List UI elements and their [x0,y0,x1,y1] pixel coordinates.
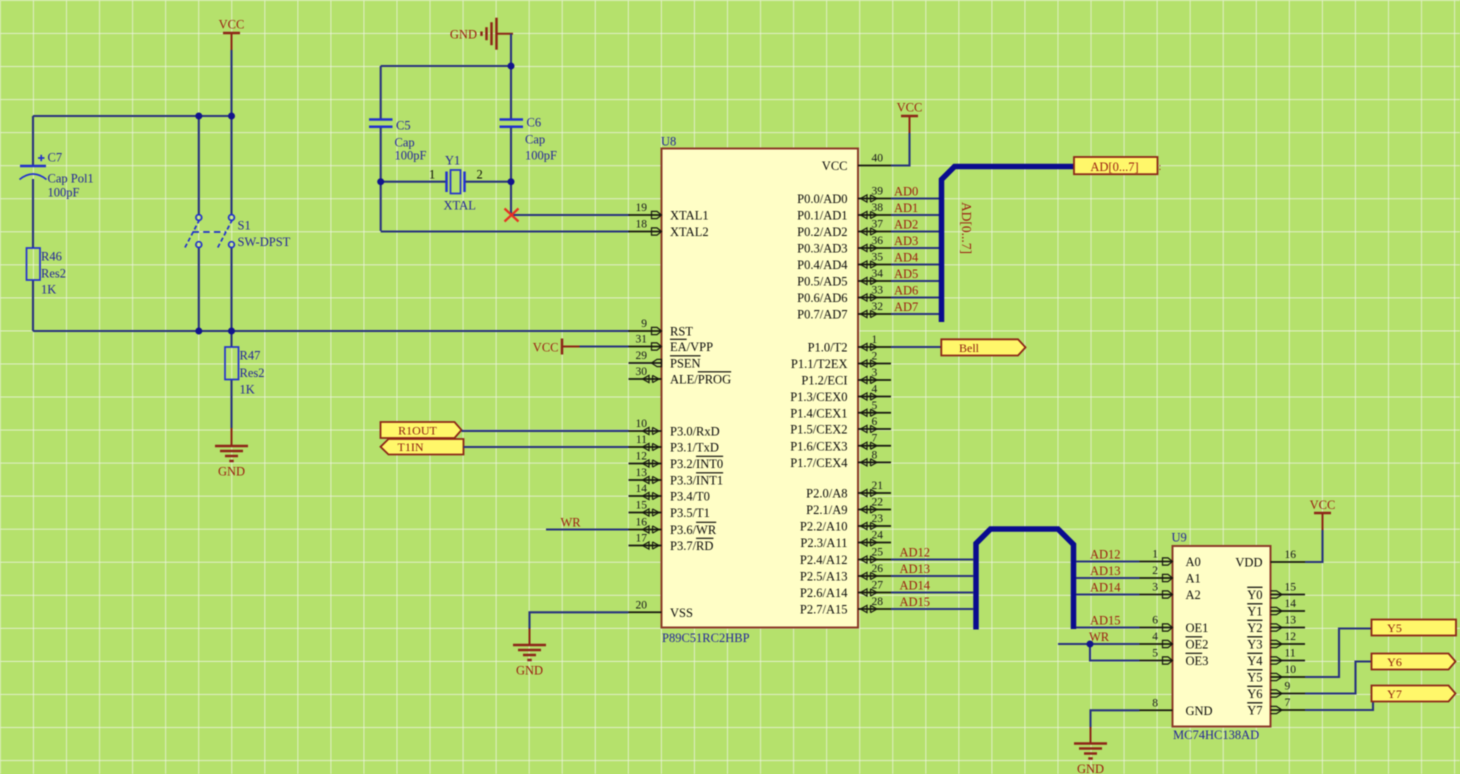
svg-text:Y6: Y6 [1247,687,1262,701]
svg-text:U9: U9 [1172,531,1187,545]
wire switch pole2 bottom lead [230,247,232,331]
svg-text:P3.2/INT0: P3.2/INT0 [670,457,723,471]
wire net AD13 (U8 side) [891,575,973,577]
node junction pole1-top [195,113,202,120]
U8 pin 4 P1.3/CEX0 [790,384,891,405]
node junction pole2-bottom [228,328,235,335]
wire net AD6 [891,296,939,298]
svg-text:AD3: AD3 [894,234,918,248]
U8 pin 33 P0.6/AD6 [797,285,891,306]
svg-text:P1.6/CEX3: P1.6/CEX3 [790,439,847,453]
svg-text:33: 33 [872,285,884,297]
U8 pin 27 P2.6/A14 [800,580,891,601]
wire R47 bottom lead [230,380,232,429]
wire Y6 net [1305,662,1372,694]
svg-text:P1.4/CEX1: P1.4/CEX1 [790,407,847,421]
svg-text:AD15: AD15 [900,595,931,609]
wire XTAL1 net [511,214,630,216]
wire C5 top lead [380,66,382,119]
wire net AD7 [891,313,939,315]
U8 pin 19 XTAL1 [629,202,709,223]
svg-text:P3.7/RD: P3.7/RD [670,539,713,553]
node junction GND-C6 top [508,63,515,70]
svg-text:P89C51RC2HBP: P89C51RC2HBP [662,631,750,645]
svg-text:24: 24 [872,530,884,542]
svg-text:Y7: Y7 [1387,687,1402,701]
svg-text:14: 14 [636,483,648,495]
svg-text:4: 4 [1152,631,1158,643]
U9 pin 1 A0 [1140,549,1201,570]
U8 pin 36 P0.3/AD3 [797,235,891,256]
svg-text:Y4: Y4 [1247,654,1263,668]
U9 pin 7 Y7 [1247,697,1305,718]
U9 pin 6 OE1 [1140,615,1209,636]
svg-text:AD7: AD7 [894,300,918,314]
wire net WR (U8 side) [546,528,629,530]
U8 pin 10 P3.0/RxD [629,418,720,439]
svg-text:P3.3/INT1: P3.3/INT1 [670,474,723,488]
U8 pin 13 P3.3/INT1 [629,467,724,488]
svg-text:17: 17 [636,533,648,545]
svg-text:RST: RST [670,325,693,339]
svg-text:P0.7/AD7: P0.7/AD7 [797,308,847,322]
wire net T1IN [464,446,629,448]
svg-text:16: 16 [1285,549,1297,561]
svg-text:Cap Pol1: Cap Pol1 [48,172,94,186]
wire C7 bottom lead [32,179,34,248]
port Y6 [1372,654,1456,670]
wire switch pole1 top lead [198,116,200,215]
wire net AD15 (U9 side) [1076,626,1140,628]
svg-text:WR: WR [1089,630,1110,644]
svg-text:9: 9 [641,318,647,330]
svg-text:26: 26 [872,563,884,575]
port Bell [941,339,1025,355]
bus label box AD[0...7] [1074,157,1158,174]
capacitor C7 [20,151,94,200]
svg-text:P1.1/T2EX: P1.1/T2EX [791,357,848,371]
svg-text:7: 7 [872,433,878,445]
wire C6 to XTAL1 corner [510,182,512,215]
IC U8 P89C51RC2HBP body [662,149,859,628]
wire net AD4 [891,263,939,265]
svg-text:8: 8 [1152,697,1158,709]
svg-text:1K: 1K [41,283,56,297]
U8 pin 38 P0.1/AD1 [797,202,891,223]
svg-text:Y5: Y5 [1247,671,1262,685]
bus AD12-AD15 hump [976,529,1074,630]
svg-text:AD13: AD13 [900,562,931,576]
svg-text:R47: R47 [240,349,261,363]
svg-text:C7: C7 [48,151,63,165]
node junction Y1 left [377,178,384,185]
U8 pin 21 P2.0/A8 [806,480,891,501]
wire net AD2 [891,230,939,232]
svg-text:6: 6 [1152,615,1158,627]
svg-text:19: 19 [636,202,648,214]
svg-text:100pF: 100pF [48,186,80,200]
svg-text:13: 13 [636,467,648,479]
svg-text:P1.5/CEX2: P1.5/CEX2 [790,423,847,437]
wire C5 bottom lead [380,127,382,231]
U9 pin 13 Y2 [1247,615,1305,636]
svg-text:30: 30 [636,366,648,378]
svg-text:AD14: AD14 [900,578,931,592]
svg-text:OE1: OE1 [1186,621,1209,635]
wire net AD5 [891,280,939,282]
svg-text:Y5: Y5 [1387,621,1402,635]
svg-text:12: 12 [636,451,648,463]
crystal Y1 [429,154,483,213]
svg-text:MC74HC138AD: MC74HC138AD [1173,728,1259,742]
svg-text:P3.5/T1: P3.5/T1 [670,506,710,520]
svg-text:P0.2/AD2: P0.2/AD2 [797,225,847,239]
svg-text:AD6: AD6 [894,283,918,297]
svg-text:P0.1/AD1: P0.1/AD1 [797,209,847,223]
wire C7 top lead [32,116,34,166]
wire net AD1 [891,214,939,216]
svg-text:2: 2 [872,351,878,363]
svg-text:XTAL1: XTAL1 [670,209,709,223]
U8 pin 35 P0.4/AD4 [797,252,891,273]
svg-text:1: 1 [429,168,435,182]
svg-text:AD0: AD0 [894,184,918,198]
svg-text:13: 13 [1285,615,1297,627]
svg-text:VSS: VSS [670,606,693,620]
svg-text:P0.4/AD4: P0.4/AD4 [797,258,848,272]
wire net EA/VPP [580,345,629,347]
svg-text:38: 38 [872,202,884,214]
power VCC VCC4 [1310,498,1336,530]
wire VSS to GND [530,612,629,628]
svg-text:AD12: AD12 [1090,547,1121,561]
svg-text:AD5: AD5 [894,267,918,281]
node junction Y1 right [508,178,515,185]
svg-text:AD4: AD4 [894,250,919,264]
U9 pin 11 Y4 [1247,648,1305,669]
capacitor C6 [500,116,558,163]
svg-text:T1IN: T1IN [398,440,424,454]
U8 pin 2 P1.1/T2EX [791,351,891,372]
power GND top (rotated) [450,18,513,50]
U8 pin 15 P3.5/T1 [629,500,710,521]
wire net AD14 (U9 side) [1076,593,1140,595]
U8 pin 39 P0.0/AD0 [797,186,891,207]
U8 pin 7 P1.6/CEX3 [790,433,891,454]
wire switch pole2 top lead [230,116,232,215]
svg-text:34: 34 [872,268,884,280]
svg-text:40: 40 [872,153,884,165]
svg-text:P3.0/RxD: P3.0/RxD [670,425,720,439]
svg-text:S1: S1 [238,219,251,233]
svg-text:P2.5/A13: P2.5/A13 [800,570,848,584]
U8 pin 28 P2.7/A15 [800,596,891,617]
svg-text:8: 8 [872,449,878,461]
U9 pin 8 GND [1140,697,1213,718]
capacitor C5 [369,119,427,163]
svg-text:VCC: VCC [219,18,245,32]
svg-text:P2.7/A15: P2.7/A15 [800,603,848,617]
U8 pin 18 XTAL2 [629,219,709,240]
svg-text:AD13: AD13 [1090,564,1121,578]
wire GND drop to crystal net [510,34,512,66]
U8 pin 40 VCC [822,153,891,174]
wire net AD12 (U9 side) [1076,560,1140,562]
svg-text:5: 5 [1152,648,1158,660]
svg-text:11: 11 [1285,648,1296,660]
svg-text:P1.0/T2: P1.0/T2 [808,341,848,355]
svg-text:3: 3 [872,367,878,379]
svg-text:27: 27 [872,580,884,592]
wire GND pin8 [1091,710,1140,727]
svg-text:XTAL: XTAL [444,199,476,213]
svg-text:Y7: Y7 [1247,704,1262,718]
wire bottom horizontal net to RST [33,330,630,332]
wire switch pole1 bottom lead [198,247,200,331]
wire XTAL2 net [381,230,630,232]
svg-text:100pF: 100pF [395,149,427,163]
svg-text:1: 1 [1152,549,1158,561]
svg-text:39: 39 [872,186,884,198]
port Y7 [1372,686,1456,702]
svg-text:Cap: Cap [525,133,545,147]
power GND GND1 [215,428,248,479]
switch S1 SW-DPST [185,215,291,249]
U8 pin 5 P1.4/CEX1 [790,400,891,421]
wire net AD15 (U8 side) [891,608,973,610]
U8 pin 23 P2.2/A10 [800,513,891,534]
svg-text:P2.6/A14: P2.6/A14 [800,586,848,600]
wire net R1OUT [462,430,629,432]
wire R47 top lead [230,331,232,347]
U8 pin 34 P0.5/AD5 [797,268,891,289]
U8 pin 17 P3.7/RD [629,533,714,554]
resistor R46 [27,248,67,297]
svg-text:12: 12 [1285,631,1297,643]
U9 pin 4 OE2 [1140,631,1209,652]
U8 pin 25 P2.4/A12 [800,547,891,568]
svg-text:EA/VPP: EA/VPP [670,340,713,354]
svg-text:5: 5 [872,400,878,412]
svg-text:P2.1/A9: P2.1/A9 [806,503,847,517]
svg-text:100pF: 100pF [525,149,557,163]
svg-text:15: 15 [1285,582,1297,594]
svg-text:4: 4 [872,384,878,396]
power GND GND2 (U8) [513,629,546,678]
svg-text:OE2: OE2 [1186,638,1209,652]
svg-text:28: 28 [872,596,884,608]
power VCC3 (rotated, at EA/VPP) [533,339,580,355]
U8 pin 11 P3.1/TxD [629,434,719,455]
svg-text:AD1: AD1 [894,201,918,215]
svg-text:R46: R46 [41,250,62,264]
U8 pin 1 P1.0/T2 [808,334,891,355]
svg-text:OE3: OE3 [1186,654,1209,668]
wire net AD14 (U8 side) [891,591,973,593]
U9 pin 14 Y1 [1247,598,1305,619]
svg-text:20: 20 [636,599,648,611]
wire R46 bottom lead [32,280,34,331]
power GND GND3 (U9) [1074,727,1107,774]
wire net Bell [891,346,941,348]
svg-text:Y2: Y2 [1247,621,1262,635]
svg-text:2: 2 [477,168,483,182]
svg-text:VCC: VCC [822,159,848,173]
U9 pin 10 Y5 [1247,664,1305,685]
U8 pin 6 P1.5/CEX2 [790,416,891,437]
power VCC VCC1 [219,18,245,51]
svg-text:SW-DPST: SW-DPST [238,235,291,249]
wire net AD3 [891,247,939,249]
svg-text:6: 6 [872,416,878,428]
wire Y5 net [1305,629,1372,678]
svg-text:VCC: VCC [897,101,923,115]
svg-text:35: 35 [872,252,884,264]
svg-text:R1OUT: R1OUT [398,423,437,437]
svg-text:14: 14 [1285,598,1297,610]
svg-text:A2: A2 [1186,588,1201,602]
svg-text:ALE/PROG: ALE/PROG [670,373,731,387]
svg-text:A1: A1 [1186,572,1201,586]
port T1IN [381,439,464,455]
port Y5 [1372,620,1457,636]
wire Y7 net [1305,702,1373,711]
svg-text:Y6: Y6 [1387,655,1402,669]
svg-text:1K: 1K [240,383,255,397]
U8 pin 32 P0.7/AD7 [797,301,891,322]
svg-text:Res2: Res2 [240,366,265,380]
wire net AD0 [891,197,939,199]
svg-text:1: 1 [872,334,878,346]
resistor R47 [225,347,265,397]
svg-text:GND: GND [516,664,543,678]
svg-text:18: 18 [636,219,648,231]
wire C6 bottom lead [510,127,512,182]
node junction WR-OE2 [1087,641,1094,648]
port R1OUT [381,422,462,438]
svg-text:29: 29 [636,350,648,362]
svg-text:C6: C6 [527,116,542,130]
svg-text:P0.5/AD5: P0.5/AD5 [797,275,847,289]
svg-text:15: 15 [636,500,648,512]
svg-text:P0.3/AD3: P0.3/AD3 [797,242,847,256]
svg-text:2: 2 [1152,565,1158,577]
node junction pole2-top [228,113,235,120]
svg-text:16: 16 [636,517,648,529]
wire VCC1 drop (navy part) [230,50,232,116]
U8 pin 31 EA/VPP [629,334,714,355]
svg-text:Y0: Y0 [1247,588,1262,602]
svg-text:AD[0...7]: AD[0...7] [1090,160,1138,174]
wire OE2 to OE3 [1090,644,1140,661]
svg-text:Cap: Cap [395,136,415,150]
svg-text:P3.4/T0: P3.4/T0 [670,490,710,504]
wire WR to OE2 [1058,643,1140,645]
svg-text:P1.7/CEX4: P1.7/CEX4 [790,456,848,470]
svg-text:36: 36 [872,235,884,247]
U8 pin 16 P3.6/WR [629,517,717,538]
svg-text:P2.4/A12: P2.4/A12 [800,553,848,567]
U8 pin 14 P3.4/T0 [629,483,710,504]
svg-text:P1.2/ECI: P1.2/ECI [801,374,847,388]
U9 pin 2 A1 [1140,565,1201,586]
U8 pin 29 PSEN [629,350,701,371]
svg-text:AD15: AD15 [1090,613,1121,627]
wire net AD12 (U8 side) [891,558,973,560]
U8 pin 8 P1.7/CEX4 [790,449,891,470]
U9 pin 5 OE3 [1140,648,1209,669]
svg-text:Y1: Y1 [445,154,460,168]
U9 pin 12 Y3 [1247,631,1305,652]
U8 pin 9 RST [629,318,694,339]
U8 pin 20 VSS [629,599,693,620]
U8 pin 22 P2.1/A9 [806,497,891,518]
wire C6 top lead [510,66,512,119]
node junction pole1-bottom [195,328,202,335]
wire pin40 to VCC [891,133,910,166]
svg-text:P0.0/AD0: P0.0/AD0 [797,192,847,206]
svg-text:A0: A0 [1186,555,1201,569]
svg-text:9: 9 [1285,681,1291,693]
svg-text:VCC: VCC [533,341,559,355]
svg-text:GND: GND [1186,704,1213,718]
svg-text:22: 22 [872,497,884,509]
svg-text:Y3: Y3 [1247,638,1262,652]
svg-text:Y1: Y1 [1247,605,1262,619]
U8 pin 26 P2.5/A13 [800,563,891,584]
IC U9 MC74HC138AD body [1173,546,1271,727]
svg-text:P2.0/A8: P2.0/A8 [806,487,847,501]
svg-text:P0.6/AD6: P0.6/AD6 [797,291,847,305]
wire Y1 left lead [381,181,447,183]
svg-text:10: 10 [636,418,648,430]
svg-text:C5: C5 [396,119,411,133]
svg-text:GND: GND [218,465,245,479]
svg-text:23: 23 [872,513,884,525]
svg-text:3: 3 [1152,582,1158,594]
svg-text:AD12: AD12 [900,545,931,559]
svg-text:11: 11 [636,434,647,446]
U8 pin 3 P1.2/ECI [801,367,891,388]
svg-text:GND: GND [450,28,477,42]
svg-text:P2.3/A11: P2.3/A11 [800,536,847,550]
svg-text:Bell: Bell [959,341,980,355]
U9 pin 9 Y6 [1247,681,1305,702]
svg-text:PSEN: PSEN [670,357,701,371]
svg-text:XTAL2: XTAL2 [670,225,709,239]
svg-text:GND: GND [1077,762,1104,774]
svg-text:31: 31 [636,334,648,346]
svg-text:U8: U8 [661,135,676,149]
svg-text:AD2: AD2 [894,217,918,231]
svg-text:VCC: VCC [1310,498,1336,512]
svg-text:P2.2/A10: P2.2/A10 [800,520,848,534]
svg-text:Res2: Res2 [41,267,66,281]
U9 pin 16 VDD [1235,549,1305,570]
svg-text:10: 10 [1285,664,1297,676]
svg-text:7: 7 [1285,697,1291,709]
svg-text:P3.6/WR: P3.6/WR [670,523,717,537]
svg-text::: : [1159,162,1162,173]
svg-text:P3.1/TxD: P3.1/TxD [670,441,719,455]
U9 pin 3 A2 [1140,582,1201,603]
svg-text:AD[0...7]: AD[0...7] [959,202,974,254]
svg-text:21: 21 [872,480,884,492]
power VCC VCC2 [897,101,923,134]
bus AD[0...7] [942,167,1075,323]
wire top horizontal net [33,115,232,117]
wire VDD to VCC [1305,530,1323,562]
